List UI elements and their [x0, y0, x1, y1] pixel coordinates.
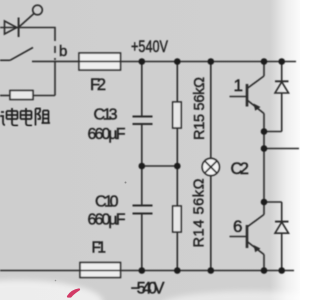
svg-text:F2: F2: [90, 76, 106, 94]
svg-text:R14 56kΩ: R14 56kΩ: [192, 178, 208, 247]
svg-text:F1: F1: [92, 240, 107, 257]
svg-text:660µF: 660µF: [88, 126, 126, 143]
svg-text:3: 3: [109, 107, 118, 124]
svg-text:+540V: +540V: [131, 38, 168, 56]
svg-text:b: b: [59, 43, 67, 60]
svg-text:0: 0: [110, 194, 119, 211]
svg-text:6: 6: [233, 217, 242, 236]
svg-text:−540V: −540V: [131, 280, 165, 298]
svg-text:R15 56kΩ: R15 56kΩ: [192, 77, 208, 140]
svg-text:2: 2: [240, 160, 249, 178]
svg-text:660µF: 660µF: [88, 212, 126, 229]
svg-text:1: 1: [234, 76, 243, 95]
